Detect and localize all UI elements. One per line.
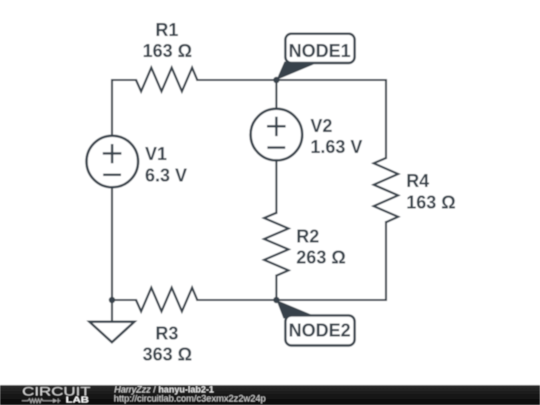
svg-text:R2: R2 bbox=[296, 226, 319, 246]
junction dot node2 bbox=[273, 297, 279, 303]
svg-text:6.3 V: 6.3 V bbox=[145, 165, 187, 185]
wire V2 bottom to R2 top bbox=[275, 161, 277, 213]
wire R2 bottom to node2 bbox=[275, 276, 277, 300]
svg-text:R4: R4 bbox=[406, 171, 429, 191]
svg-text:http://circuitlab.com/c3exmx2z: http://circuitlab.com/c3exmx2z2w24p bbox=[114, 393, 266, 403]
voltage source V1 bbox=[87, 136, 188, 188]
node NODE1 callout bbox=[276, 34, 354, 80]
svg-text:163 Ω: 163 Ω bbox=[406, 193, 455, 213]
logo resistor-diode decoration bbox=[22, 399, 61, 403]
resistor R1 bbox=[136, 20, 197, 91]
voltage source V2 bbox=[251, 109, 363, 161]
resistor R3 bbox=[136, 288, 197, 365]
svg-text:263 Ω: 263 Ω bbox=[296, 247, 345, 267]
svg-text:V1: V1 bbox=[145, 144, 167, 164]
svg-text:NODE2: NODE2 bbox=[289, 321, 351, 341]
footer bar bbox=[0, 385, 540, 405]
wire node1 to V2 top bbox=[275, 80, 277, 109]
wire R1 right to top-right corner down to R4 top bbox=[197, 80, 386, 158]
svg-text:1.63 V: 1.63 V bbox=[310, 137, 362, 157]
resistor R4 bbox=[374, 158, 456, 222]
junction dot ground/left bbox=[109, 297, 115, 303]
svg-text:NODE1: NODE1 bbox=[289, 41, 351, 61]
wire bottom-left (ground node to R3 left) bbox=[112, 299, 136, 301]
resistor R2 bbox=[264, 213, 346, 276]
svg-text:163 Ω: 163 Ω bbox=[143, 41, 192, 61]
svg-text:R1: R1 bbox=[155, 20, 178, 40]
svg-text:363 Ω: 363 Ω bbox=[143, 344, 192, 364]
wire R4 bottom to bottom-right corner to R3 right bbox=[197, 222, 386, 300]
svg-text:V2: V2 bbox=[310, 116, 332, 136]
node NODE2 callout bbox=[276, 300, 354, 346]
junction dot node1 bbox=[273, 77, 279, 83]
svg-text:R3: R3 bbox=[155, 323, 178, 343]
svg-text:LAB: LAB bbox=[66, 396, 89, 405]
wire V1 bottom to bottom-left corner bbox=[111, 187, 113, 300]
wire left top (V1 top to R1 left) bbox=[112, 80, 136, 136]
ground bbox=[89, 300, 134, 342]
